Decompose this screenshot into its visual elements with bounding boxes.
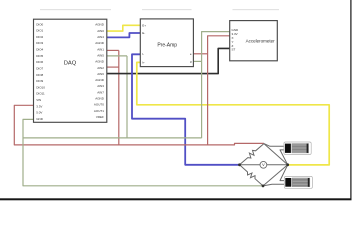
svg-text:DIO2: DIO2 xyxy=(36,35,43,39)
svg-text:Pre-Amp: Pre-Amp xyxy=(157,43,177,49)
svg-text:I-: I- xyxy=(142,52,144,56)
svg-text:AGND: AGND xyxy=(95,97,105,101)
svg-text:ST: ST xyxy=(232,48,236,52)
svg-text:AIN0: AIN0 xyxy=(97,29,104,33)
svg-text:DIO1: DIO1 xyxy=(36,29,43,33)
svg-text:AGND: AGND xyxy=(95,60,105,64)
svg-text:AOUT0: AOUT0 xyxy=(94,103,104,107)
svg-text:I+: I+ xyxy=(142,60,145,64)
svg-text:E-: E- xyxy=(142,31,145,35)
svg-text:AIN3: AIN3 xyxy=(97,84,104,88)
svg-text:GND: GND xyxy=(36,117,44,121)
svg-text:AIN4: AIN4 xyxy=(97,35,104,39)
svg-text:DIO0: DIO0 xyxy=(36,22,43,26)
svg-text:AOUT1: AOUT1 xyxy=(94,109,104,113)
svg-text:VIN: VIN xyxy=(36,98,41,102)
svg-text:AIN6: AIN6 xyxy=(97,72,104,76)
svg-text:AGND: AGND xyxy=(95,41,105,45)
svg-text:DIO3: DIO3 xyxy=(36,41,43,45)
svg-text:VREF: VREF xyxy=(96,115,104,119)
svg-text:DIO8: DIO8 xyxy=(36,73,43,77)
svg-text:E+: E+ xyxy=(142,23,146,27)
svg-text:AIN1: AIN1 xyxy=(97,47,104,51)
svg-text:V: V xyxy=(262,163,265,167)
svg-text:DIO9: DIO9 xyxy=(36,79,43,83)
svg-text:3.3V: 3.3V xyxy=(36,104,42,108)
svg-text:AGND: AGND xyxy=(95,78,105,82)
svg-text:DIO7: DIO7 xyxy=(36,67,43,71)
svg-text:AIN2: AIN2 xyxy=(97,66,104,70)
svg-text:AIN5: AIN5 xyxy=(97,54,104,58)
svg-text:DAQ: DAQ xyxy=(64,60,77,66)
svg-text:DIO5: DIO5 xyxy=(36,54,43,58)
svg-text:5.0V: 5.0V xyxy=(36,111,42,115)
svg-text:DIO10: DIO10 xyxy=(36,85,45,89)
svg-text:AIN7: AIN7 xyxy=(97,90,104,94)
svg-text:DIO4: DIO4 xyxy=(36,48,43,52)
svg-text:DIO6: DIO6 xyxy=(36,60,43,64)
svg-text:AGND: AGND xyxy=(95,23,105,27)
svg-text:Accelerometer: Accelerometer xyxy=(246,38,276,43)
svg-text:DIO11: DIO11 xyxy=(36,92,45,96)
